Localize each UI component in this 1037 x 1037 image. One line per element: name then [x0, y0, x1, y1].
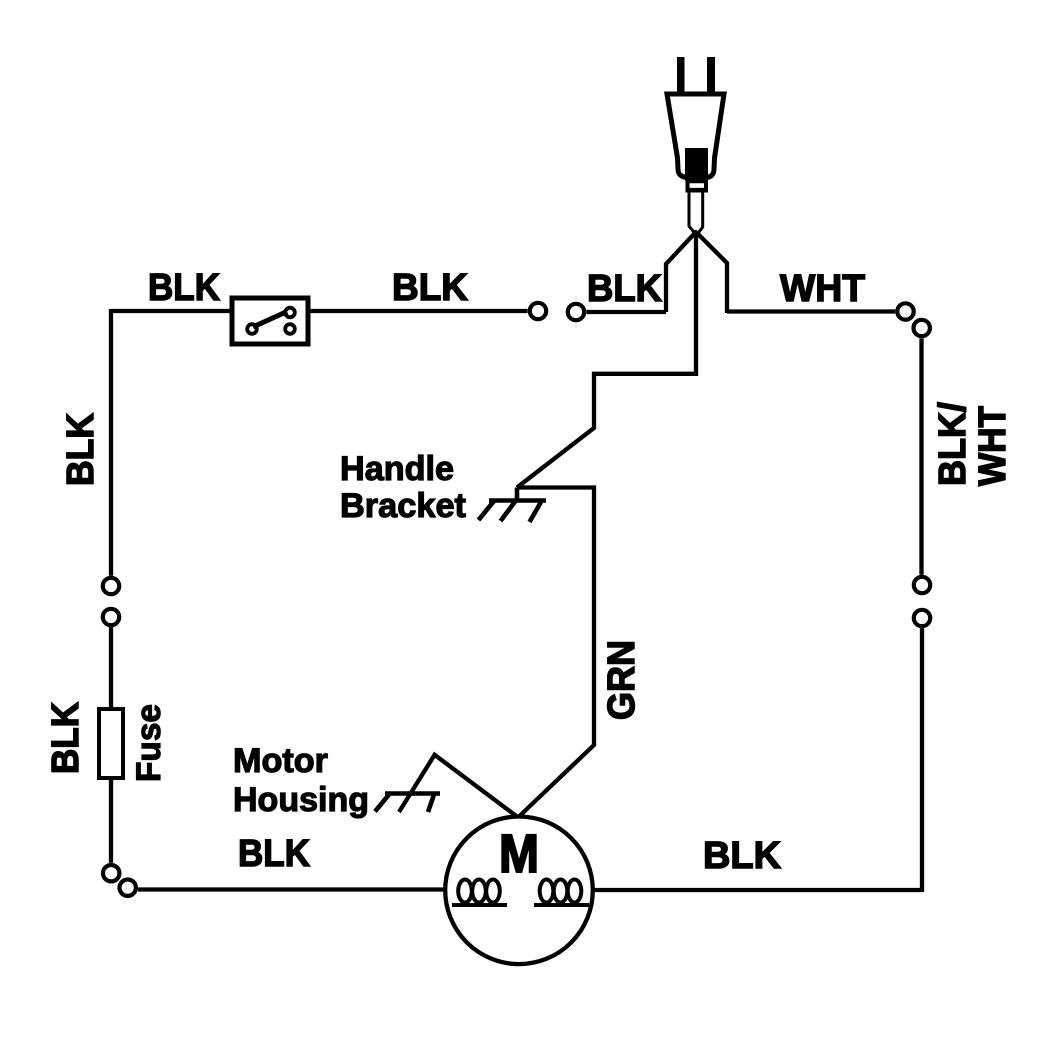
svg-text:Bracket: Bracket: [340, 487, 466, 525]
svg-text:Fuse: Fuse: [130, 704, 168, 782]
wire WHT plug to right bend: [697, 233, 727, 313]
switch S1 lower terminal: [285, 324, 295, 334]
svg-text:BLK: BLK: [60, 412, 102, 486]
wire fuse to bottom connector: [109, 778, 113, 863]
wire BLK top-left horizontal: [111, 309, 232, 313]
wire BLK left vertical: [109, 309, 113, 576]
switch S1 upper terminal: [285, 308, 295, 318]
svg-text:BLK: BLK: [392, 267, 469, 309]
connector circle top-right upper: [897, 303, 913, 319]
svg-text:Housing: Housing: [233, 781, 369, 819]
svg-text:BLK: BLK: [587, 268, 663, 310]
svg-text:Motor: Motor: [233, 742, 328, 780]
wire BLK-WHT right vertical lower: [920, 628, 924, 892]
wire GRN from plug down: [517, 233, 696, 488]
wire BLK from plug to left bend: [666, 233, 695, 312]
motor M1 right winding: [534, 880, 589, 906]
wire GRN ground junction to motor: [517, 488, 594, 817]
wire motor housing ground branch: [399, 755, 517, 817]
plug P1 cord junction: [693, 230, 699, 236]
wire connector to fuse: [109, 627, 113, 709]
svg-text:BLK: BLK: [238, 833, 311, 875]
wire BLK bottom-right horizontal: [592, 888, 922, 892]
motor M1 left winding: [452, 880, 507, 906]
plug P1 collar: [686, 178, 709, 193]
svg-text:GRN: GRN: [601, 640, 643, 720]
connector circle right lower: [914, 610, 930, 626]
plug P1 cord: [689, 192, 703, 234]
plug P1 body: [667, 94, 724, 178]
svg-text:BLK: BLK: [703, 835, 782, 877]
plug P1 cord grip: [685, 148, 708, 181]
connector circle bottom-left upper: [103, 865, 119, 881]
plug P1 right prong: [707, 57, 715, 96]
connector circle bottom-left lower: [120, 880, 136, 896]
plug P1 left prong: [677, 57, 685, 96]
motor M1 housing circle: [445, 817, 593, 965]
switch S1 box: [232, 298, 308, 344]
connector circle top middle right: [568, 304, 584, 320]
wire BLK bottom-left horizontal: [138, 887, 446, 891]
svg-text:BLK: BLK: [45, 701, 87, 774]
switch S1 common terminal: [247, 324, 257, 334]
svg-text:WHT: WHT: [972, 406, 1014, 486]
wire BLK-WHT right vertical upper: [919, 338, 923, 574]
svg-text:BLK: BLK: [148, 267, 221, 309]
ground motor housing symbol: [375, 794, 440, 813]
svg-text:BLK/: BLK/: [932, 402, 974, 486]
svg-text:Handle: Handle: [340, 450, 454, 488]
fuse F1 body: [99, 709, 123, 778]
wire WHT top horizontal: [727, 309, 895, 313]
connector circle left upper: [103, 578, 119, 594]
svg-text:WHT: WHT: [780, 268, 865, 310]
connector circle left lower: [103, 609, 119, 625]
connector circle top middle left: [530, 303, 546, 319]
wire BLK switch to connector: [308, 309, 528, 313]
switch S1 arm: [253, 312, 287, 328]
svg-text:M: M: [499, 824, 539, 884]
connector circle right upper: [914, 577, 930, 593]
connector circle top-right lower: [914, 320, 930, 336]
wire BLK top middle horizontal: [587, 310, 667, 314]
ground handle bracket symbol: [479, 488, 547, 523]
